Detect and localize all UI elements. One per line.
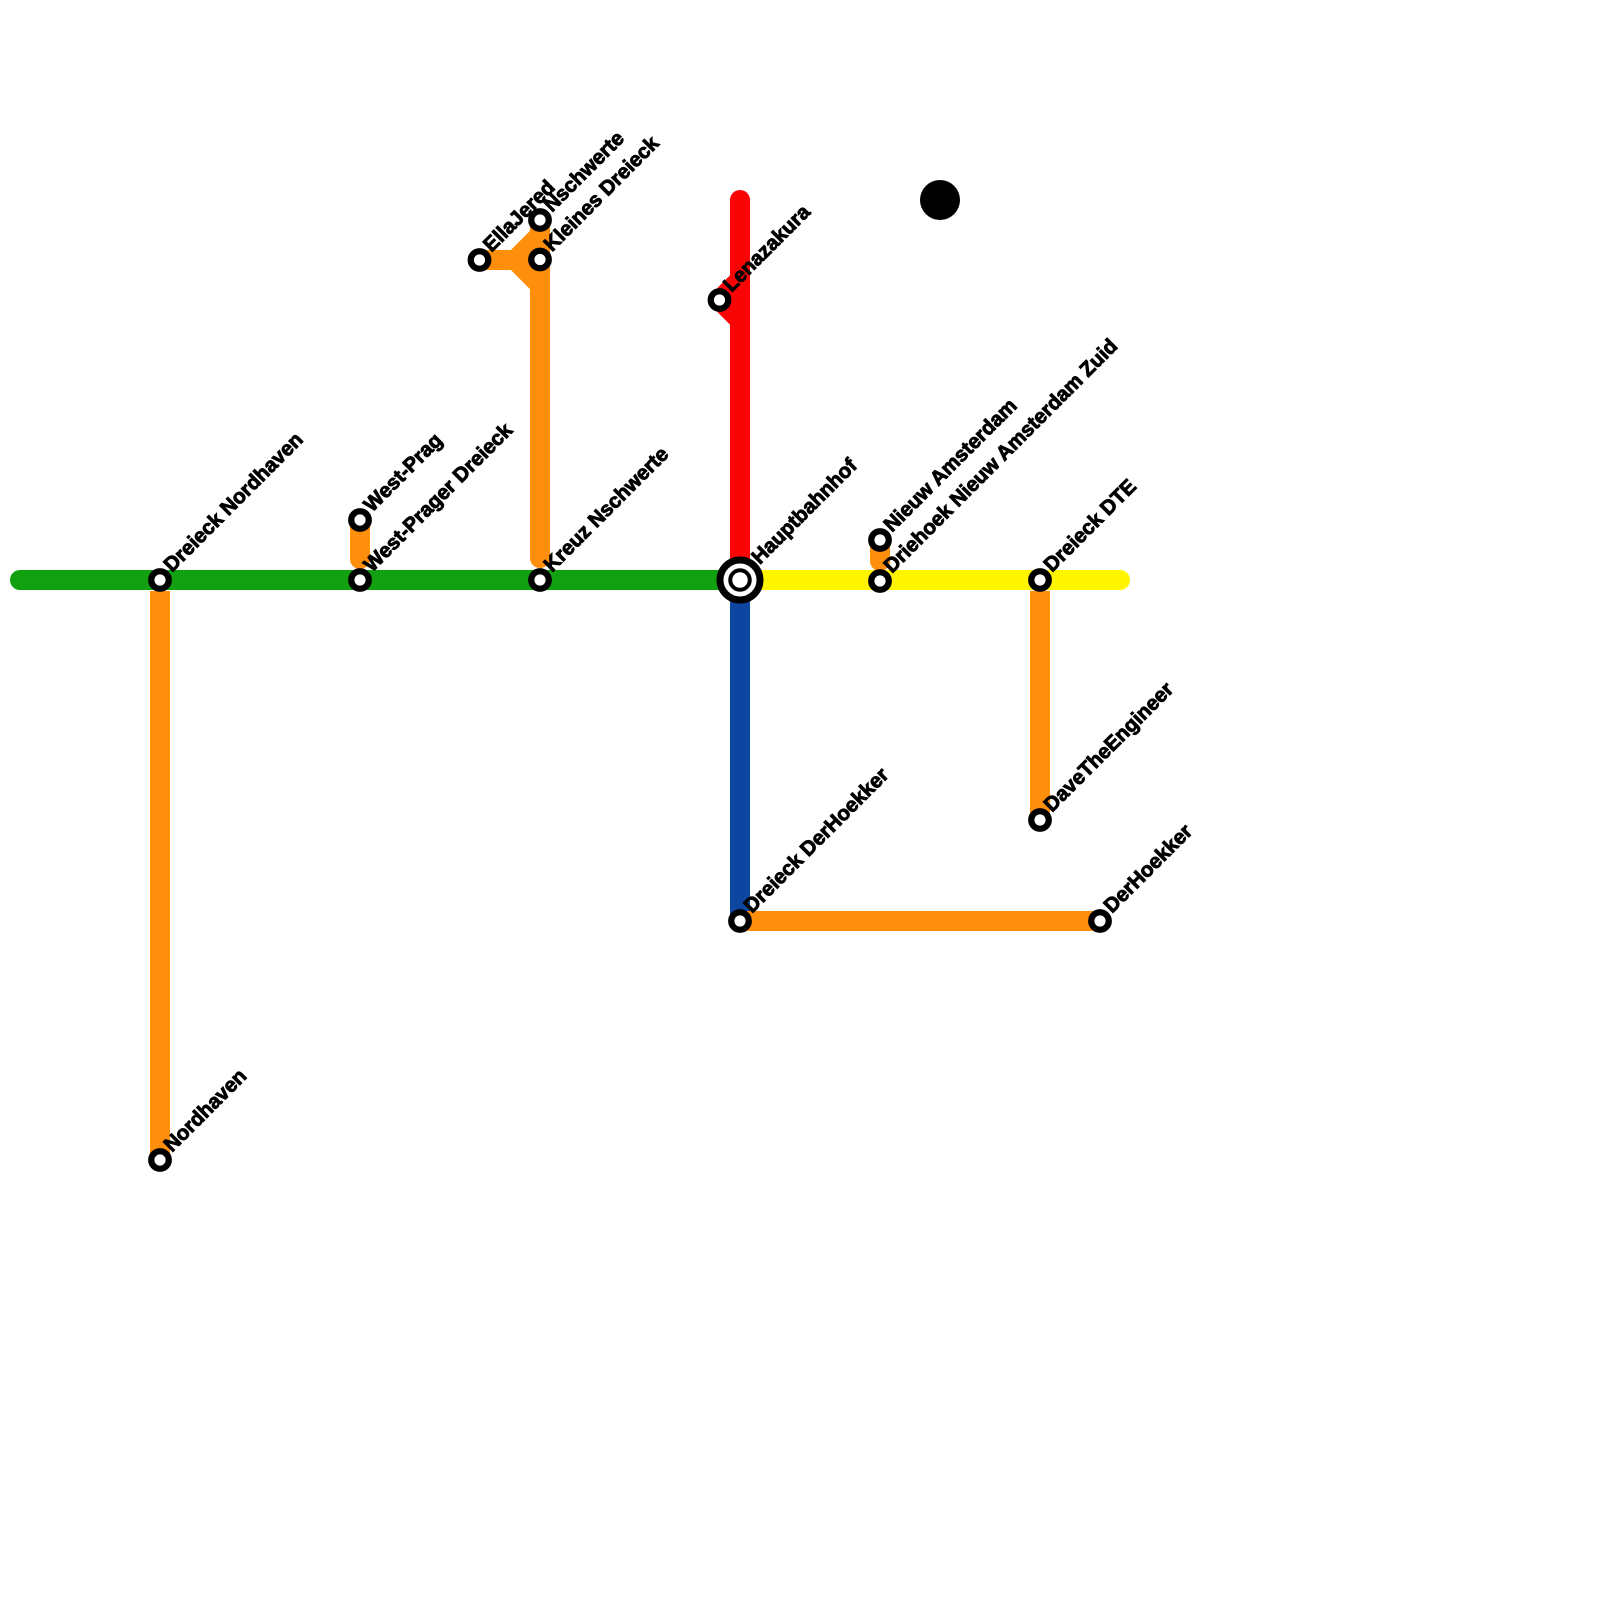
yellow line (east trunk) — [740, 570, 1120, 590]
station Dreieck DerHoekker — [731, 912, 749, 930]
blue line (south trunk) — [730, 580, 750, 921]
station West-Prag — [351, 511, 369, 529]
black dot landmark — [920, 180, 960, 220]
svg-text:Kreuz Nschwerte: Kreuz Nschwerte — [539, 443, 673, 577]
svg-text:DaveTheEngineer: DaveTheEngineer — [1039, 678, 1178, 817]
station Nordhaven — [151, 1151, 169, 1169]
station DerHoekker — [1091, 912, 1109, 930]
station Nschwerte — [531, 211, 549, 229]
station Dreieck Nordhaven — [151, 571, 169, 589]
svg-text:Hauptbahnhof: Hauptbahnhof — [747, 454, 862, 569]
red spur to Lenazakura — [720, 280, 741, 321]
station Lenazakura — [711, 291, 729, 309]
svg-text:Dreieck DTE: Dreieck DTE — [1039, 475, 1141, 577]
svg-text:DerHoekker: DerHoekker — [1099, 820, 1197, 918]
orange stub Nieuw Amsterdam — [870, 540, 890, 561]
orange stub West-Prag — [350, 520, 370, 559]
svg-text:Dreieck Nordhaven: Dreieck Nordhaven — [159, 428, 307, 576]
station Kreuz Nschwerte — [531, 571, 549, 589]
station Dreieck DTE — [1031, 571, 1049, 589]
orange line Nschwerte vertical — [530, 220, 550, 558]
green line (west trunk) — [20, 570, 740, 590]
station DaveTheEngineer — [1031, 811, 1049, 829]
orange line DTE branch — [1030, 591, 1050, 820]
station Nieuw Amsterdam — [871, 531, 889, 549]
interchange Hauptbahnhof — [720, 560, 760, 600]
red line (north trunk) — [730, 200, 750, 580]
orange line DerHoekker branch — [740, 911, 1100, 931]
orange spur EllaJered upper — [480, 235, 541, 260]
station Kleines Dreieck — [531, 251, 549, 269]
orange spur EllaJered lower — [480, 260, 541, 285]
station Driehoek Nieuw Amsterdam Zuid — [871, 572, 889, 590]
orange line Nordhaven branch — [150, 591, 170, 1160]
svg-text:Nordhaven: Nordhaven — [159, 1064, 251, 1156]
svg-text:Dreieck DerHoekker: Dreieck DerHoekker — [739, 763, 893, 917]
station EllaJered — [471, 251, 489, 269]
station West-Prager Dreieck — [351, 571, 369, 589]
